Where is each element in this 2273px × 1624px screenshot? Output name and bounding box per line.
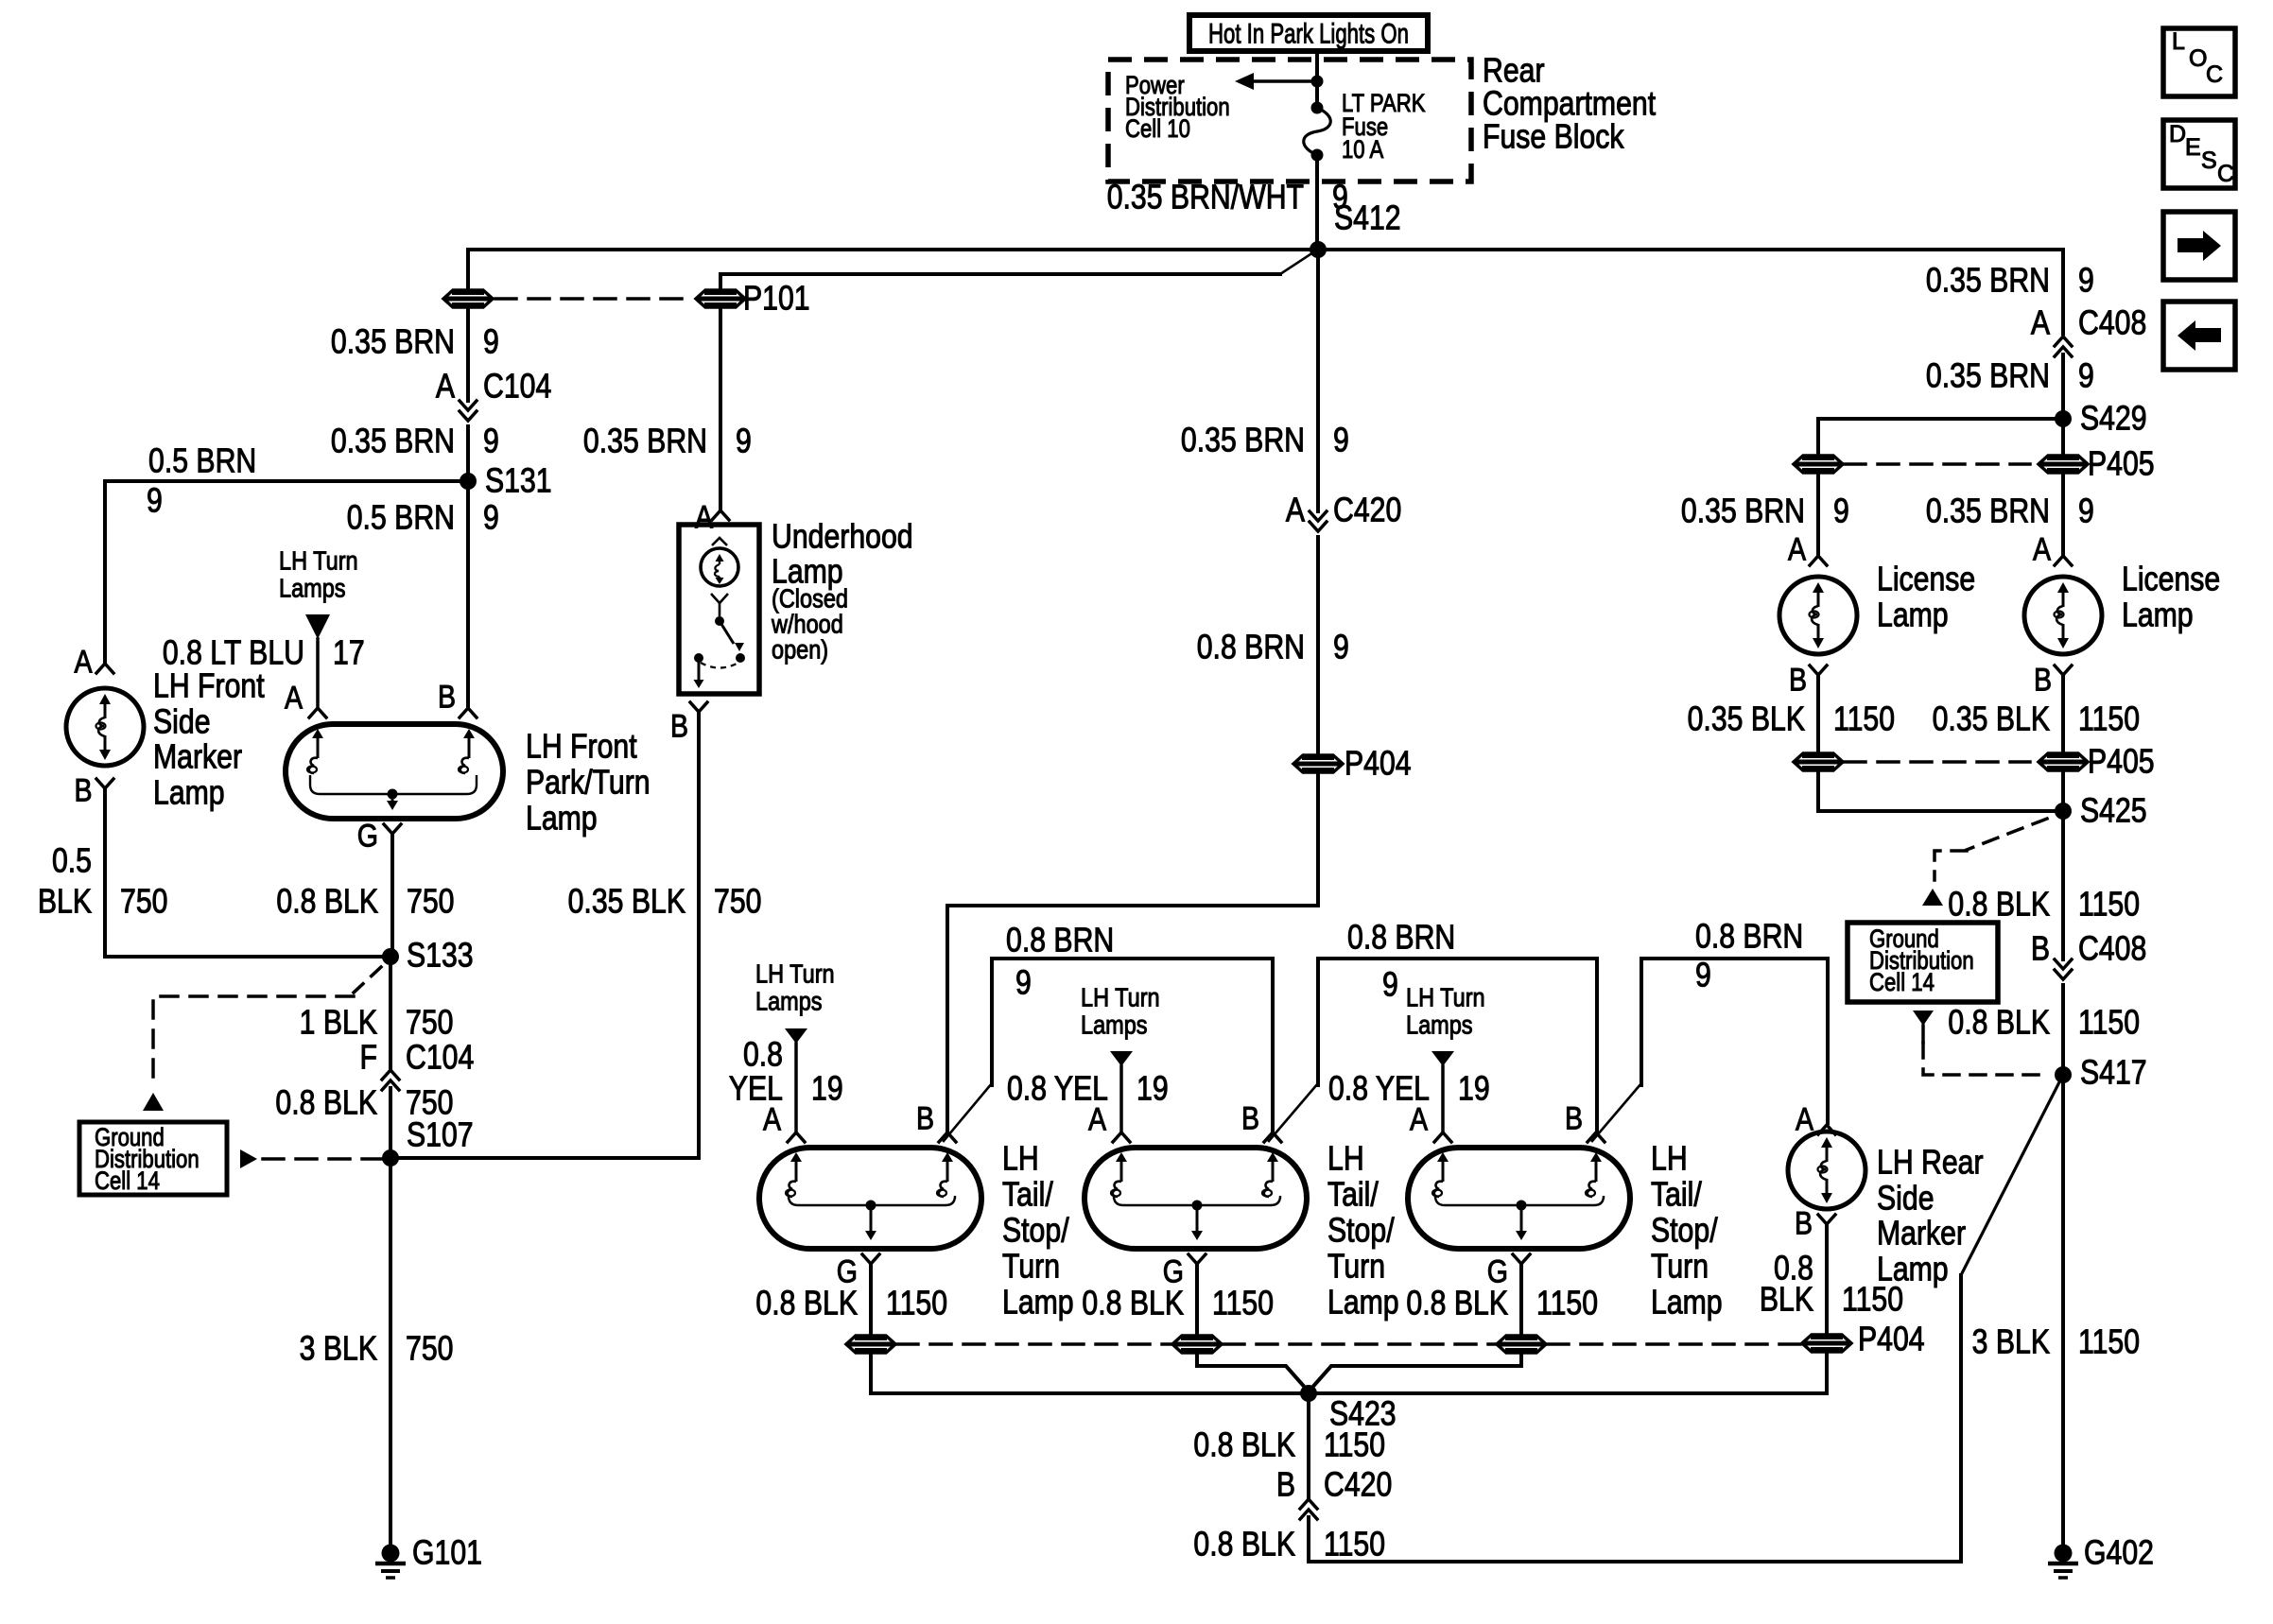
- svg-text:Lamp: Lamp: [1002, 1284, 1074, 1322]
- svg-text:19: 19: [1458, 1070, 1490, 1108]
- label 0.35 BRN 9 (center): [1181, 422, 1349, 459]
- dashed reference S133 to ground distribution: [153, 967, 381, 1083]
- label LH Front Side Marker Lamp: [153, 667, 265, 812]
- svg-text:C408: C408: [2078, 930, 2146, 968]
- svg-text:Underhood: Underhood: [772, 518, 913, 556]
- label 0.5 BRN: [148, 442, 256, 480]
- label 9 (jumper 1): [1015, 964, 1032, 1002]
- svg-text:B: B: [2031, 930, 2050, 968]
- wire S429 branch to left license lamp: [1818, 419, 2063, 454]
- off-page arrow LH Turn Lamps (front): [305, 614, 330, 639]
- fuse F LT PARK 10A: [1304, 102, 1331, 162]
- svg-text:C104: C104: [406, 1039, 474, 1077]
- label A C420: [1286, 492, 1401, 529]
- label 0.8 BLK 750 (below C104 F): [275, 1084, 453, 1122]
- label A C408: [2031, 304, 2146, 342]
- wire S131 to LH front side marker lamp A: [105, 481, 468, 662]
- label P101: [743, 280, 810, 318]
- wire C104 F to S107: [389, 1088, 392, 1158]
- label S417: [2080, 1054, 2147, 1092]
- connector P101 left half: [443, 290, 493, 307]
- splice S107: [382, 1149, 399, 1166]
- label 3 BLK 1150: [1972, 1323, 2140, 1361]
- svg-text:0.8 BLK: 0.8 BLK: [276, 883, 378, 921]
- label G (park/turn pin): [357, 818, 378, 854]
- svg-text:9: 9: [2078, 492, 2094, 530]
- svg-text:750: 750: [407, 883, 454, 921]
- wire P404 to tail lamp 1 B: [947, 774, 1318, 1131]
- dashed reference ground distribution to S417: [1923, 1026, 2048, 1075]
- pin B chevron tail lamp 1: [939, 1132, 956, 1142]
- svg-text:Cell 14: Cell 14: [95, 1167, 160, 1196]
- label 0.8 YEL 19 (tail lamp 2): [1007, 1070, 1169, 1108]
- svg-text:A: A: [285, 680, 303, 716]
- svg-text:0.5: 0.5: [52, 842, 92, 880]
- pin B chevron side marker: [96, 779, 113, 788]
- wire S107 to G101: [389, 1158, 392, 1544]
- label 9 (0.5 BRN circuit): [147, 482, 163, 520]
- off-page arrow LH Turn Lamps (tail lamp 2): [1110, 1051, 1133, 1066]
- label 0.8 BLK 1150 (below C408 B): [1948, 1004, 2140, 1042]
- svg-text:B: B: [1795, 1205, 1813, 1241]
- connector C104 pin F chevrons: [382, 1070, 399, 1090]
- label A (tail lamp 2 pin): [1088, 1101, 1106, 1137]
- pin A chevron license left: [1810, 556, 1827, 565]
- svg-text:1 BLK: 1 BLK: [300, 1004, 377, 1042]
- svg-text:LH Turn: LH Turn: [279, 547, 358, 576]
- label 0.8 BRN (jumper 1): [1006, 922, 1114, 959]
- label 0.35 BRN 9 (below C408): [1926, 357, 2094, 395]
- svg-text:LH: LH: [1327, 1140, 1364, 1178]
- nav box arrow right: [2163, 212, 2235, 280]
- svg-text:(Closed: (Closed: [772, 585, 848, 613]
- svg-text:Lamp: Lamp: [526, 800, 598, 838]
- splice S133: [382, 948, 399, 965]
- pin G chevron tail lamp 3: [1513, 1254, 1530, 1264]
- svg-text:C420: C420: [1324, 1466, 1392, 1504]
- pin A chevron side marker: [96, 664, 113, 673]
- svg-text:B: B: [438, 679, 456, 715]
- svg-text:Lamps: Lamps: [1406, 1011, 1473, 1040]
- svg-text:1150: 1150: [1536, 1285, 1598, 1322]
- svg-text:B: B: [2034, 662, 2052, 698]
- label LH Turn Lamps (tail lamp 3): [1406, 984, 1485, 1040]
- svg-text:Cell 10: Cell 10: [1125, 115, 1190, 144]
- nav box arrow left: [2163, 302, 2235, 370]
- label A (rear marker pin): [1796, 1101, 1813, 1137]
- label License Lamp (left): [1877, 561, 1975, 634]
- svg-text:A: A: [1796, 1101, 1813, 1137]
- label 9 (jumper 2): [1382, 966, 1398, 1004]
- label 0.8 BRN (jumper 3): [1695, 918, 1803, 956]
- pin A chevron tail lamp 3: [1434, 1132, 1451, 1142]
- svg-text:G402: G402: [2084, 1534, 2154, 1572]
- connector P404 grommet (center): [1293, 755, 1343, 772]
- off-page arrow LH Turn Lamps (tail lamp 1): [785, 1028, 807, 1044]
- svg-text:9: 9: [1333, 422, 1349, 459]
- wire rear marker B to P404: [1825, 1224, 1829, 1332]
- svg-text:L: L: [2172, 28, 2185, 55]
- wire C408 A to S429: [2061, 354, 2065, 419]
- svg-text:A: A: [1286, 492, 1306, 529]
- underhood lamp bulb and switch: [694, 538, 746, 688]
- svg-text:0.8 BLK: 0.8 BLK: [755, 1285, 858, 1322]
- lamp tail lamp 1: [759, 1148, 981, 1249]
- wire tail lamp 1 G to P404: [869, 1264, 873, 1334]
- svg-text:0.35 BRN: 0.35 BRN: [331, 423, 455, 460]
- svg-text:9: 9: [483, 323, 499, 361]
- pin A chevron tail lamp 1: [788, 1132, 805, 1142]
- svg-text:0.8: 0.8: [743, 1036, 783, 1074]
- svg-text:0.35 BRN: 0.35 BRN: [1181, 422, 1305, 459]
- svg-text:C: C: [2217, 161, 2234, 187]
- svg-text:S412: S412: [1334, 199, 1401, 237]
- svg-text:9: 9: [1695, 957, 1711, 994]
- wire C104 to S131 to park/turn lamp B: [466, 426, 470, 708]
- pin B chevron license right: [2055, 665, 2072, 675]
- svg-text:0.8 LT BLU: 0.8 LT BLU: [163, 634, 304, 672]
- svg-text:B: B: [916, 1100, 934, 1136]
- label Ground Distribution Cell 14 (right): [1869, 925, 1974, 997]
- svg-text:Turn: Turn: [1327, 1248, 1385, 1286]
- svg-text:Park/Turn: Park/Turn: [526, 764, 651, 802]
- wire S423 to C420 B: [1307, 1393, 1310, 1498]
- svg-text:LH Front: LH Front: [526, 728, 637, 766]
- svg-text:Tail/: Tail/: [1002, 1176, 1053, 1214]
- label 0.5 BRN 9 (below S131): [347, 499, 499, 537]
- label 0.8 BLK 1150 (S425 ground ref): [1948, 886, 2140, 924]
- lamp LH rear side marker: [1788, 1132, 1865, 1209]
- svg-text:17: 17: [333, 634, 365, 672]
- pin A chevron underhood: [712, 510, 729, 520]
- svg-text:A: A: [1788, 531, 1806, 567]
- svg-text:S417: S417: [2080, 1054, 2147, 1092]
- svg-text:19: 19: [1136, 1070, 1169, 1108]
- off-page arrow S425 ground reference (up): [1922, 889, 1943, 906]
- label G (tail lamp 1 pin): [837, 1253, 858, 1289]
- wire C408 B to S417: [2061, 985, 2065, 1075]
- connector P404 grommet (tail lamp 1): [846, 1336, 895, 1353]
- svg-text:Marker: Marker: [153, 738, 242, 776]
- splice S417: [2055, 1066, 2072, 1083]
- svg-text:9: 9: [1333, 629, 1349, 666]
- pin A chevron license right: [2055, 556, 2072, 565]
- svg-text:Stop/: Stop/: [1002, 1212, 1069, 1250]
- off-page arrow from ground distribution (right): [240, 1149, 257, 1168]
- svg-text:9: 9: [147, 482, 163, 520]
- pin A chevron tail lamp 2: [1113, 1132, 1130, 1142]
- wire tail lamp 3 ground to S423: [1310, 1355, 1521, 1391]
- label 0.8 BLK 1150 (tail lamp 3 ground): [1406, 1285, 1598, 1322]
- connector P404 grommet (tail lamp 3): [1497, 1336, 1546, 1353]
- wire tail lamp 3 G to P404: [1519, 1264, 1523, 1334]
- lamp tail lamp 2: [1084, 1148, 1307, 1249]
- svg-text:A: A: [2031, 304, 2051, 342]
- label Ground Distribution Cell 14 (left): [95, 1124, 200, 1196]
- svg-text:Lamp: Lamp: [1327, 1284, 1399, 1322]
- wire tail lamp 2 ground to S423: [1197, 1355, 1308, 1391]
- nav box DESC: [2163, 120, 2235, 188]
- svg-text:0.35 BLK: 0.35 BLK: [1933, 700, 2050, 738]
- connector P101 right half: [696, 290, 745, 307]
- connector P405 grommet (ground right): [2039, 753, 2088, 770]
- lamp license left: [1779, 577, 1857, 654]
- label A (license right): [2033, 531, 2051, 567]
- label A (park/turn pin): [285, 680, 303, 716]
- label Power Distribution Cell 10: [1125, 72, 1230, 144]
- label 3 BLK 750: [300, 1330, 454, 1368]
- label 0.8 BRN 9 (center): [1197, 629, 1349, 666]
- svg-text:0.8 BLK: 0.8 BLK: [1082, 1285, 1184, 1322]
- underhood lamp box: [679, 525, 759, 694]
- svg-text:Fuse Block: Fuse Block: [1483, 118, 1624, 156]
- label LH Turn Lamps (tail lamp 2): [1081, 984, 1160, 1040]
- svg-text:1150: 1150: [886, 1285, 947, 1322]
- label A (underhood pin): [695, 499, 713, 535]
- svg-text:S425: S425: [2080, 792, 2147, 830]
- wire S107 to underhood lamp B: [390, 712, 699, 1158]
- pin G chevron park/turn: [384, 824, 401, 834]
- label 0.5 BLK 750: [38, 842, 168, 921]
- svg-text:G: G: [357, 818, 378, 854]
- svg-text:P405: P405: [2088, 743, 2155, 781]
- svg-text:A: A: [1410, 1101, 1428, 1137]
- svg-text:S429: S429: [2080, 400, 2147, 438]
- label 9 (jumper 3): [1695, 957, 1711, 994]
- svg-text:Lamps: Lamps: [755, 988, 823, 1016]
- svg-text:9: 9: [1015, 964, 1032, 1002]
- wire tail lamp 2 G to P404: [1195, 1264, 1199, 1334]
- fuse block header box "Hot In Park Lights On": [1189, 15, 1428, 51]
- svg-text:BLK: BLK: [38, 883, 92, 921]
- svg-text:E: E: [2185, 134, 2201, 161]
- svg-text:S: S: [2201, 147, 2217, 174]
- svg-text:F: F: [360, 1039, 377, 1077]
- svg-text:0.5 BRN: 0.5 BRN: [148, 442, 256, 480]
- svg-text:C104: C104: [483, 368, 551, 406]
- wire S425 to C408 B: [2061, 811, 2065, 959]
- off-page arrow LH Turn Lamps (tail lamp 3): [1431, 1051, 1454, 1066]
- connector P404 grommet (tail lamp 2): [1172, 1336, 1222, 1353]
- svg-text:Lamps: Lamps: [279, 575, 346, 603]
- wire bus to P101 left: [466, 250, 470, 288]
- svg-text:0.35 BLK: 0.35 BLK: [1688, 700, 1805, 738]
- pin G chevron tail lamp 2: [1189, 1254, 1206, 1264]
- svg-text:1150: 1150: [2078, 1004, 2140, 1042]
- label S425: [2080, 792, 2147, 830]
- label B (license right): [2034, 662, 2052, 698]
- label 0.8 BLK 1150 (tail lamp 2 ground): [1082, 1285, 1274, 1322]
- wire turn feed to park/turn lamp A: [316, 639, 320, 708]
- svg-text:0.8 BRN: 0.8 BRN: [1006, 922, 1114, 959]
- dashed reference to S107: [263, 1157, 382, 1161]
- svg-text:10 A: 10 A: [1342, 136, 1384, 164]
- wire P405 to license lamp A (right): [2061, 475, 2065, 554]
- svg-text:1150: 1150: [1212, 1285, 1274, 1322]
- wire turn feed to tail lamp 3 A: [1441, 1066, 1445, 1131]
- wire P405 dashed (feed): [1845, 462, 2030, 466]
- svg-text:B: B: [1565, 1100, 1583, 1136]
- label F C104: [360, 1039, 475, 1077]
- svg-text:Hot In Park Lights On: Hot In Park Lights On: [1208, 19, 1409, 50]
- ground G402: [2048, 1545, 2078, 1579]
- label 0.35 BRN 9 (left license): [1681, 492, 1849, 530]
- pin B chevron tail lamp 3: [1588, 1132, 1605, 1142]
- svg-text:Lamp: Lamp: [2122, 596, 2194, 634]
- svg-text:B: B: [670, 708, 688, 744]
- label LH Front Park/Turn Lamp: [526, 728, 651, 838]
- label S429: [2080, 400, 2147, 438]
- label 0.35 BRN 9 (above C104): [331, 323, 499, 361]
- label License Lamp (right): [2122, 561, 2220, 634]
- connector P405 grommet (left feed): [1794, 456, 1843, 473]
- wire park/turn G to S133: [390, 834, 394, 957]
- pin A chevron rear marker: [1818, 1125, 1835, 1134]
- svg-text:LH Front: LH Front: [153, 667, 265, 705]
- svg-text:LH: LH: [1002, 1140, 1039, 1178]
- svg-text:0.35 BRN/WHT: 0.35 BRN/WHT: [1107, 179, 1304, 216]
- nav box LOC: [2163, 28, 2235, 96]
- connector C408 pin B chevrons: [2055, 959, 2072, 979]
- svg-text:P405: P405: [2088, 445, 2155, 483]
- label S107: [407, 1116, 474, 1154]
- label 1 BLK 750: [300, 1004, 454, 1042]
- label B (side marker pin): [74, 772, 92, 808]
- label 0.8 BLK 750 (park/turn ground): [276, 883, 454, 921]
- svg-text:S133: S133: [407, 937, 474, 975]
- svg-text:A: A: [695, 499, 713, 535]
- pin A chevron park/turn: [309, 708, 326, 717]
- label G402: [2084, 1534, 2154, 1572]
- label B (tail lamp 1 pin): [916, 1100, 934, 1136]
- wire turn feed to tail lamp 2 A: [1119, 1066, 1123, 1131]
- label LH Turn Lamps (front): [279, 547, 358, 603]
- label P404: [1345, 745, 1412, 783]
- svg-text:LH Turn: LH Turn: [755, 960, 835, 989]
- lamp license right: [2024, 577, 2102, 654]
- dashed reference S425 to ground distribution: [1935, 819, 2047, 880]
- svg-text:9: 9: [1833, 492, 1849, 530]
- svg-text:Lamp: Lamp: [153, 774, 225, 812]
- svg-text:Stop/: Stop/: [1327, 1212, 1395, 1250]
- svg-text:A: A: [763, 1101, 781, 1137]
- wire 0.8 BRN jumper 2 (tail2 B to tail3 B): [1269, 959, 1597, 1141]
- label P404 (rear): [1858, 1321, 1925, 1358]
- wire right license P405 to S425: [2061, 772, 2065, 811]
- wire rear marker P404 to S423: [1310, 1354, 1827, 1393]
- svg-text:B: B: [1276, 1466, 1295, 1504]
- label P405 (ground): [2088, 743, 2155, 781]
- svg-text:A: A: [436, 368, 456, 406]
- svg-text:Side: Side: [153, 703, 211, 741]
- svg-text:9: 9: [1382, 966, 1398, 1004]
- svg-text:19: 19: [811, 1070, 843, 1108]
- svg-text:Tail/: Tail/: [1651, 1176, 1702, 1214]
- svg-text:0.8 BRN: 0.8 BRN: [1347, 919, 1455, 957]
- svg-text:0.8 BRN: 0.8 BRN: [1197, 629, 1305, 666]
- svg-text:0.35 BLK: 0.35 BLK: [568, 883, 685, 921]
- label 0.35 BLK 1150 (left): [1688, 700, 1895, 738]
- svg-text:open): open): [772, 636, 828, 665]
- svg-text:1150: 1150: [1324, 1426, 1385, 1464]
- label LT PARK Fuse 10 A: [1342, 90, 1426, 164]
- pin B chevron license left: [1810, 665, 1827, 675]
- label Rear Compartment Fuse Block: [1483, 52, 1656, 156]
- label B C420: [1276, 1466, 1392, 1504]
- svg-text:C: C: [2206, 61, 2223, 88]
- splice S131: [460, 473, 477, 490]
- wire tail lamp 1 ground to S423: [871, 1355, 1307, 1393]
- pin B chevron park/turn: [460, 708, 477, 717]
- svg-text:Marker: Marker: [1877, 1215, 1966, 1253]
- wire 0.8 BRN jumper 1 (tail1 B to tail2 B): [944, 959, 1273, 1141]
- wire S417 to G402: [2061, 1075, 2065, 1544]
- svg-text:9: 9: [2078, 262, 2094, 300]
- svg-text:9: 9: [483, 499, 499, 537]
- svg-text:P404: P404: [1345, 745, 1412, 783]
- label 0.8 BLK 1150 (tail lamp 1 ground): [755, 1285, 947, 1322]
- svg-text:1150: 1150: [2078, 1323, 2140, 1361]
- svg-text:Turn: Turn: [1651, 1248, 1709, 1286]
- svg-text:LH Rear: LH Rear: [1877, 1144, 1984, 1182]
- label A C104: [436, 368, 551, 406]
- svg-text:B: B: [1241, 1100, 1259, 1136]
- svg-text:Cell 14: Cell 14: [1869, 969, 1935, 997]
- wire S133 to C104 F: [389, 957, 392, 1069]
- wire S412 to C420 A: [1316, 250, 1320, 511]
- label LH Tail/Stop/Turn Lamp (tail lamp 3): [1651, 1140, 1723, 1322]
- svg-text:0.8 BLK: 0.8 BLK: [1948, 886, 2050, 924]
- svg-text:A: A: [2033, 531, 2051, 567]
- label 0.8 YEL 19 (tail lamp 3): [1328, 1070, 1490, 1108]
- splice S429: [2055, 410, 2072, 427]
- svg-text:3 BLK: 3 BLK: [300, 1330, 377, 1368]
- svg-text:0.8 BLK: 0.8 BLK: [1948, 1004, 2050, 1042]
- wire C420 B to S417 (3 BLK run): [1309, 1275, 1961, 1562]
- wire P405 to license lamp A (left): [1816, 475, 1820, 554]
- svg-text:0.35 BRN: 0.35 BRN: [1926, 492, 2050, 530]
- svg-text:B: B: [74, 772, 92, 808]
- svg-text:1150: 1150: [2078, 700, 2140, 738]
- svg-text:1150: 1150: [1833, 700, 1895, 738]
- label 0.8 BLK 1150 (rear marker ground): [1760, 1250, 1903, 1319]
- wire P404 dashed pass-through (rear): [897, 1342, 1801, 1346]
- svg-text:License: License: [2122, 561, 2220, 598]
- svg-text:Lamp: Lamp: [1651, 1284, 1723, 1322]
- label LH Rear Side Marker Lamp: [1877, 1144, 1984, 1288]
- label 0.35 BRN/WHT 9: [1107, 179, 1348, 216]
- connector C408 pin A chevrons: [2055, 337, 2072, 356]
- svg-text:0.8 BLK: 0.8 BLK: [275, 1084, 377, 1122]
- pin B chevron rear marker: [1818, 1215, 1835, 1224]
- label B (underhood pin): [670, 708, 688, 744]
- label 0.35 BLK 750 (underhood ground): [568, 883, 762, 921]
- label S412: [1334, 199, 1401, 237]
- label 0.35 BRN 9 (underhood feed): [583, 423, 752, 460]
- pin B chevron underhood: [690, 702, 707, 712]
- svg-text:D: D: [2169, 121, 2186, 147]
- svg-text:License: License: [1877, 561, 1975, 598]
- box Ground Distribution Cell 14 (left): [79, 1122, 227, 1195]
- svg-text:3 BLK: 3 BLK: [1972, 1323, 2050, 1361]
- svg-text:9: 9: [2078, 357, 2094, 395]
- wire fuse feed from header: [1315, 50, 1319, 106]
- svg-text:750: 750: [406, 1004, 453, 1042]
- label 0.8 YEL 19 (tail 1): [729, 1036, 843, 1108]
- svg-text:Lamps: Lamps: [1081, 1011, 1148, 1040]
- label B (tail lamp 3 pin): [1565, 1100, 1583, 1136]
- wire P101 pass-through dashed: [495, 297, 694, 301]
